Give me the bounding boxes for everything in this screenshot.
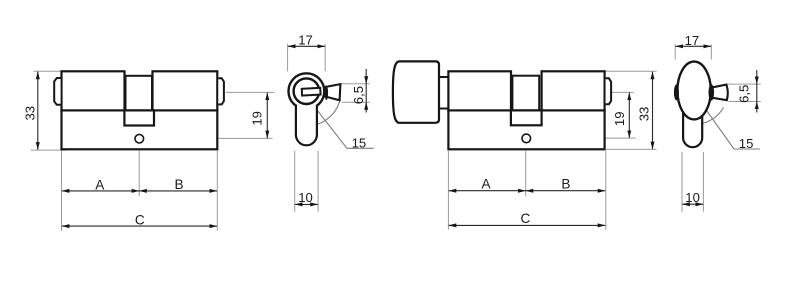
left end cap bbox=[54, 78, 60, 105]
extension line 33 bottom bbox=[31, 149, 67, 151]
svg-text:15: 15 bbox=[352, 135, 367, 150]
keyhole stem outline bbox=[296, 105, 317, 146]
extension line A/B/C right (right view) bbox=[605, 151, 607, 230]
extension line 10 left bbox=[294, 151, 296, 212]
dimension line 6,5 upper (thumbturn) bbox=[756, 70, 758, 84]
dimension line 6,5 middle bbox=[365, 84, 367, 102]
extension line A/B/C left (right view) bbox=[447, 151, 449, 230]
dimension line 33 bbox=[37, 72, 39, 150]
svg-text:15: 15 bbox=[739, 136, 754, 151]
barrel right section (right view) bbox=[542, 71, 605, 110]
screw hole bbox=[135, 134, 144, 143]
cylinder body bbox=[62, 110, 218, 149]
cylinder body (right view) bbox=[448, 110, 604, 149]
keyhole stem fill bbox=[296, 102, 317, 145]
leader 15 bbox=[317, 110, 374, 149]
extension line 10 left (thumbturn) bbox=[681, 152, 683, 212]
barrel left section bbox=[62, 71, 125, 110]
svg-text:A: A bbox=[482, 177, 492, 192]
left bump (thumbturn) bbox=[674, 84, 679, 100]
dimension line 17 (thumbturn) bbox=[676, 45, 712, 47]
cam bbox=[124, 110, 154, 125]
svg-text:19: 19 bbox=[612, 112, 627, 127]
extension line A/B middle bbox=[138, 151, 140, 197]
extension line 6,5 top (thumbturn) bbox=[728, 83, 761, 85]
dimension line 17 bbox=[288, 45, 325, 47]
right end cap (right view) bbox=[606, 78, 612, 104]
dimension line 6,5 lower bbox=[365, 102, 367, 112]
svg-text:17: 17 bbox=[685, 33, 700, 48]
dimension line B bbox=[139, 190, 217, 192]
radius arc 15 bbox=[318, 99, 341, 124]
barrel left section (right view) bbox=[448, 71, 511, 110]
svg-text:C: C bbox=[135, 212, 145, 227]
svg-text:33: 33 bbox=[22, 106, 37, 121]
extension line A/B/C left bbox=[61, 151, 63, 231]
svg-text:B: B bbox=[175, 177, 184, 192]
cylinder face circle bbox=[289, 73, 325, 109]
dimension line B (right view) bbox=[526, 190, 606, 192]
svg-text:C: C bbox=[520, 211, 530, 226]
plug circle bbox=[294, 78, 320, 104]
dimension line 6,5 middle (thumbturn) bbox=[756, 84, 758, 101]
dimension line 19 bbox=[266, 93, 268, 139]
extension line 33 top (right view) bbox=[605, 70, 657, 72]
thumbturn stem bbox=[683, 100, 702, 147]
right end cap bbox=[218, 78, 224, 104]
extension line 10 right (thumbturn) bbox=[702, 152, 704, 212]
svg-text:19: 19 bbox=[250, 111, 265, 126]
cam (right view) bbox=[511, 110, 542, 125]
barrel middle piece bbox=[126, 76, 153, 111]
barrel right section bbox=[153, 71, 218, 110]
svg-text:A: A bbox=[95, 177, 105, 192]
dimension line 6,5 lower (thumbturn) bbox=[756, 102, 758, 113]
right bump (thumbturn) bbox=[709, 84, 715, 100]
leader from screw hole (right view) bbox=[533, 137, 636, 139]
svg-text:33: 33 bbox=[636, 107, 651, 122]
extension line 19 top bbox=[226, 91, 275, 93]
screw hole (right view) bbox=[522, 134, 531, 143]
keyway bbox=[302, 88, 321, 96]
svg-text:10: 10 bbox=[685, 190, 700, 205]
dimension line A (right view) bbox=[449, 190, 526, 192]
extension line A/B/C right bbox=[216, 151, 218, 231]
extension line 17 left (thumbturn) bbox=[674, 44, 676, 59]
radius arc 15 (thumbturn) bbox=[702, 108, 724, 124]
svg-text:B: B bbox=[561, 177, 570, 192]
thumbturn neck bbox=[437, 77, 450, 109]
leader from screw hole bbox=[148, 137, 273, 139]
barrel middle piece (right view) bbox=[512, 76, 539, 111]
extension line 33 top bbox=[34, 70, 61, 72]
extension line 17 right (thumbturn) bbox=[710, 44, 712, 59]
extension line 6,5 top bbox=[341, 83, 370, 85]
extension line 6,5 bottom bbox=[342, 101, 370, 103]
extension line 17 left bbox=[287, 44, 289, 72]
extension line 17 right bbox=[324, 44, 326, 72]
thumbturn oval bbox=[677, 62, 710, 120]
dimension line 33 (right view) bbox=[652, 72, 654, 150]
cam tongue (front) bbox=[325, 84, 340, 100]
svg-text:17: 17 bbox=[298, 32, 313, 47]
dimension line 19 (right view) bbox=[628, 93, 630, 138]
cam tongue (thumbturn) bbox=[711, 85, 728, 101]
dimension line C bbox=[62, 225, 217, 227]
extension line 6,5 bottom (thumbturn) bbox=[729, 101, 761, 103]
svg-text:6,5: 6,5 bbox=[351, 86, 366, 104]
dimension line 6,5 upper bbox=[365, 69, 367, 84]
thumbturn knob bbox=[393, 61, 439, 122]
dimension line A bbox=[62, 190, 139, 192]
dimension line 10 (thumbturn) bbox=[682, 203, 703, 205]
dimension line C (right view) bbox=[449, 224, 606, 226]
dimension line 10 bbox=[295, 203, 318, 205]
cam bump (front) bbox=[325, 86, 328, 100]
svg-text:10: 10 bbox=[298, 190, 313, 205]
extension line 19 top (right view) bbox=[612, 91, 634, 93]
extension line A/B middle (right view) bbox=[525, 151, 527, 196]
extension line 33 bottom (right view) bbox=[606, 148, 657, 150]
svg-text:6,5: 6,5 bbox=[737, 85, 752, 103]
extension line 10 right bbox=[317, 151, 319, 212]
leader 15 (thumbturn) bbox=[706, 110, 760, 149]
